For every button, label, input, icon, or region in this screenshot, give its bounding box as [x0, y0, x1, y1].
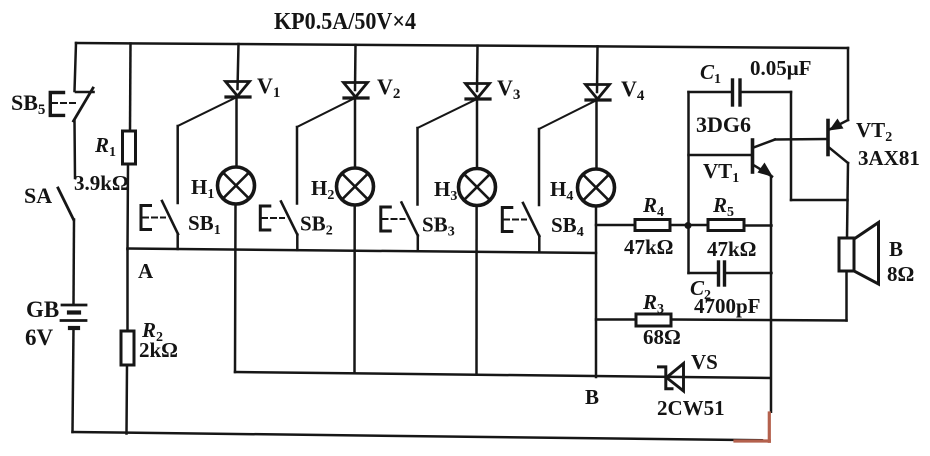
svg-text:SA: SA: [24, 183, 52, 208]
pushbutton SB4 blade: [523, 203, 539, 236]
svg-text:A: A: [138, 259, 154, 283]
svg-text:47kΩ: 47kΩ: [624, 235, 674, 259]
svg-text:4700pF: 4700pF: [694, 294, 761, 318]
svg-text:VS: VS: [691, 350, 718, 374]
wire R4 left: [596, 224, 635, 227]
lamp H4: [578, 169, 615, 206]
wire top supply rail: [76, 43, 848, 48]
wire R1 column from rail: [129, 44, 132, 132]
transistor VT1 collector: [754, 140, 776, 148]
resistor R5 box: [708, 220, 744, 231]
svg-text:3DG6: 3DG6: [696, 112, 751, 137]
wire red corner vertical: [768, 413, 771, 441]
wire V2 cathode to lamp: [354, 98, 357, 168]
wire lamp H3 down to B line: [475, 206, 478, 375]
zener diode VS triangle: [667, 364, 684, 392]
wire C1 to VT2 collector: [791, 199, 848, 202]
wire speaker down: [845, 271, 848, 321]
wire gate drop SB1: [176, 126, 179, 203]
wire SB4 to A bus: [538, 236, 541, 252]
svg-text:B: B: [585, 385, 599, 409]
wire lamp H1 down to B line: [234, 204, 237, 372]
wire V2 gate lead: [297, 98, 355, 127]
wire R2 to bottom rail: [125, 365, 128, 434]
resistor R3 box: [636, 314, 671, 326]
transistor VT1 emitter arrow: [758, 163, 774, 178]
thyristor V2: [344, 83, 369, 99]
wire VT1 collector to VT2 base: [775, 138, 827, 141]
wire V3 cathode to lamp: [476, 99, 479, 169]
wire gate drop SB4: [538, 129, 541, 205]
wire junction to R5: [688, 224, 708, 227]
capacitor C2 left wire: [689, 272, 717, 275]
capacitor C1 right wire: [742, 91, 791, 94]
wire gate drop SB3: [416, 128, 419, 205]
resistor R2 box: [121, 331, 134, 365]
wire V3 gate lead: [418, 99, 478, 128]
wire VT1 emitter column: [770, 176, 773, 412]
wire red corner horizontal: [735, 439, 769, 442]
wire V1 cathode to lamp: [235, 97, 238, 167]
pushbutton SB1 blade: [162, 201, 178, 234]
pushbutton SB2 actuator bracket: [260, 206, 270, 230]
pushbutton SB1 actuator bracket: [141, 206, 151, 230]
wire SB5 to SA: [73, 121, 76, 178]
wire lamp H4 down to B line: [595, 206, 598, 377]
wire C1 right drop: [790, 92, 793, 200]
pushbutton SB2 link dashes: [262, 217, 284, 219]
wire V4 anode: [596, 46, 599, 92]
resistor R4 box: [635, 220, 670, 231]
lamp H2: [337, 168, 374, 205]
wire R4 right to junction: [670, 224, 688, 227]
wire bottom rail: [73, 432, 763, 440]
svg-text:6V: 6V: [25, 325, 54, 350]
transistor VT1 base wire: [689, 154, 752, 157]
switch SA blade: [58, 188, 74, 220]
pushbutton SB5 (NC) blade: [74, 88, 94, 121]
pushbutton SB3 blade: [402, 203, 418, 236]
wire VT2 collector to speaker: [847, 163, 848, 238]
pushbutton SB4 actuator bracket: [502, 208, 512, 232]
pushbutton SB3 link dashes: [383, 218, 405, 220]
resistor R1 box: [123, 131, 136, 164]
thyristor V4: [586, 85, 611, 101]
wire node B line: [235, 372, 770, 378]
wire SB2 to A bus: [296, 235, 299, 251]
wire battery to bottom rail: [73, 328, 74, 432]
transistor VT2 emitter: [830, 120, 849, 130]
wire SA to battery: [72, 220, 75, 305]
speaker B horn: [854, 223, 879, 285]
wire R1 to node A: [126, 164, 129, 249]
transistor VT1 base bar: [751, 140, 755, 172]
wire left column top (rail to SB5): [75, 43, 77, 91]
transistor VT2 emitter arrow (PNP): [829, 119, 844, 131]
wire V4 cathode to lamp: [595, 100, 598, 169]
lamp H1: [218, 167, 255, 204]
wire R3 left: [596, 318, 636, 321]
wire SB1 to A bus: [176, 234, 179, 249]
speaker B box: [839, 238, 854, 271]
svg-text:B: B: [889, 237, 903, 261]
thyristor V3: [466, 84, 491, 100]
svg-text:3AX81: 3AX81: [858, 146, 920, 170]
svg-text:0.05μF: 0.05μF: [750, 56, 811, 80]
wire V3 anode: [476, 46, 479, 91]
svg-text:2CW51: 2CW51: [657, 396, 725, 420]
svg-text:KP0.5A/50V×4: KP0.5A/50V×4: [274, 9, 416, 35]
capacitor C1 plates: [731, 80, 734, 105]
capacitor C2 right wire: [727, 272, 772, 275]
pushbutton SB5 actuator bracket: [50, 93, 63, 116]
pushbutton SB2 blade: [281, 202, 297, 235]
battery GB plates: [62, 304, 86, 307]
svg-text:68Ω: 68Ω: [643, 325, 681, 349]
svg-text:47kΩ: 47kΩ: [707, 237, 757, 261]
pushbutton SB4 link dashes: [504, 219, 526, 221]
wire V4 gate lead: [539, 100, 597, 129]
transistor VT2 base bar: [826, 121, 830, 155]
wire lamp H2 down to B line: [353, 205, 356, 373]
svg-text:8Ω: 8Ω: [887, 262, 914, 286]
wire VT1 base column: [687, 92, 690, 273]
capacitor C2 plates: [717, 262, 720, 285]
svg-text:2kΩ: 2kΩ: [139, 338, 178, 362]
zener diode VS cathode bar: [659, 367, 673, 389]
capacitor C1 left wire: [689, 91, 731, 94]
pushbutton SB5 NC bar: [76, 91, 94, 94]
junction dot: [685, 222, 692, 229]
svg-text:GB: GB: [26, 297, 59, 322]
wire VT2 emitter from rail: [847, 48, 850, 120]
wire speaker row to R3: [671, 320, 847, 321]
pushbutton SB1 link dashes: [143, 217, 165, 219]
pushbutton SB5 link dashes: [52, 102, 77, 104]
transistor VT2 collector: [829, 148, 848, 164]
wire node A bus: [128, 249, 597, 254]
wire SB3 to A bus: [417, 236, 420, 252]
wire R5 right: [744, 224, 772, 227]
thyristor V1: [226, 82, 251, 98]
wire V1 anode: [238, 44, 239, 89]
transistor VT1 emitter: [754, 165, 773, 177]
wire A to R2: [126, 249, 129, 331]
wire V2 anode: [354, 45, 357, 90]
lamp H3: [459, 169, 496, 206]
pushbutton SB3 actuator bracket: [381, 207, 391, 231]
wire V1 gate lead: [178, 97, 237, 126]
svg-text:3.9kΩ: 3.9kΩ: [74, 171, 129, 195]
wire gate drop SB2: [296, 127, 299, 204]
